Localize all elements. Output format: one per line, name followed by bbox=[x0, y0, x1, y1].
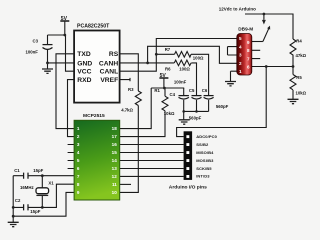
svg-text:8: 8 bbox=[247, 48, 250, 53]
svg-text:6: 6 bbox=[247, 64, 250, 69]
svg-text:Arduino I/O pins: Arduino I/O pins bbox=[169, 185, 207, 191]
svg-text:8: 8 bbox=[77, 182, 80, 187]
svg-text:1: 1 bbox=[77, 126, 80, 131]
svg-text:3: 3 bbox=[77, 142, 80, 147]
svg-text:15pF: 15pF bbox=[33, 168, 43, 173]
svg-text:VREF: VREF bbox=[100, 77, 118, 84]
svg-text:R1: R1 bbox=[154, 88, 160, 93]
svg-text:13: 13 bbox=[112, 166, 118, 171]
svg-text:VCC: VCC bbox=[77, 69, 91, 76]
svg-text:1: 1 bbox=[239, 69, 242, 74]
svg-text:4.7kΩ: 4.7kΩ bbox=[121, 107, 133, 112]
svg-text:16: 16 bbox=[112, 142, 118, 147]
svg-text:5: 5 bbox=[239, 36, 242, 41]
svg-text:4: 4 bbox=[77, 150, 80, 155]
svg-text:10: 10 bbox=[112, 190, 118, 195]
svg-text:PCA82C250T: PCA82C250T bbox=[77, 23, 110, 29]
svg-text:9: 9 bbox=[247, 40, 250, 45]
svg-text:RXD: RXD bbox=[77, 77, 91, 84]
svg-text:C3: C3 bbox=[33, 39, 39, 44]
svg-text:12: 12 bbox=[112, 174, 118, 179]
svg-text:5: 5 bbox=[77, 158, 80, 163]
svg-text:C2: C2 bbox=[15, 198, 21, 203]
svg-text:C5: C5 bbox=[189, 88, 195, 93]
svg-text:100nF: 100nF bbox=[174, 79, 187, 84]
svg-text:4: 4 bbox=[239, 44, 242, 49]
svg-text:R6: R6 bbox=[165, 67, 171, 72]
svg-text:C4: C4 bbox=[170, 92, 176, 97]
svg-text:R4: R4 bbox=[296, 39, 302, 44]
svg-text:RS: RS bbox=[109, 51, 119, 58]
svg-text:9: 9 bbox=[77, 190, 80, 195]
svg-text:2: 2 bbox=[239, 61, 242, 66]
svg-text:SCK/B5: SCK/B5 bbox=[196, 166, 212, 171]
svg-text:R7: R7 bbox=[165, 47, 171, 52]
svg-text:7: 7 bbox=[77, 174, 80, 179]
svg-text:100nF: 100nF bbox=[26, 49, 39, 54]
svg-text:CANL: CANL bbox=[100, 69, 119, 76]
svg-text:15pF: 15pF bbox=[30, 209, 40, 214]
svg-text:18: 18 bbox=[112, 126, 118, 131]
svg-text:6: 6 bbox=[77, 166, 80, 171]
svg-text:100Ω: 100Ω bbox=[193, 55, 204, 60]
svg-text:ADC0/PC0: ADC0/PC0 bbox=[196, 134, 217, 139]
svg-text:GND: GND bbox=[77, 60, 92, 67]
svg-text:560pF: 560pF bbox=[216, 104, 229, 109]
svg-text:3: 3 bbox=[239, 53, 242, 58]
svg-text:10kΩ: 10kΩ bbox=[296, 90, 307, 95]
svg-text:MOSI/B3: MOSI/B3 bbox=[196, 158, 214, 163]
svg-text:2: 2 bbox=[77, 134, 80, 139]
svg-text:C6: C6 bbox=[202, 88, 208, 93]
svg-text:10kΩ: 10kΩ bbox=[164, 111, 175, 116]
svg-text:SS/B2: SS/B2 bbox=[196, 142, 209, 147]
svg-text:MCP2515: MCP2515 bbox=[83, 113, 105, 119]
svg-text:R3: R3 bbox=[128, 87, 134, 92]
svg-text:100Ω: 100Ω bbox=[179, 67, 190, 72]
svg-text:CANH: CANH bbox=[99, 60, 118, 67]
svg-text:11: 11 bbox=[112, 182, 117, 187]
svg-text:C1: C1 bbox=[14, 168, 20, 173]
svg-text:INT/D3: INT/D3 bbox=[196, 174, 210, 179]
svg-text:DB9-M: DB9-M bbox=[238, 26, 253, 31]
svg-text:560pF: 560pF bbox=[189, 115, 202, 120]
svg-text:16MHz: 16MHz bbox=[20, 185, 34, 190]
svg-text:TXD: TXD bbox=[77, 51, 91, 58]
svg-text:X1: X1 bbox=[48, 180, 54, 185]
svg-text:14: 14 bbox=[112, 158, 118, 163]
svg-text:47kΩ: 47kΩ bbox=[296, 53, 307, 58]
svg-text:17: 17 bbox=[112, 134, 118, 139]
svg-text:5V: 5V bbox=[160, 73, 167, 79]
svg-text:R5: R5 bbox=[296, 75, 302, 80]
svg-text:MISO/B4: MISO/B4 bbox=[196, 150, 214, 155]
svg-text:15: 15 bbox=[112, 150, 118, 155]
svg-text:5V: 5V bbox=[61, 16, 68, 22]
svg-text:12Vdc to Arduino: 12Vdc to Arduino bbox=[219, 6, 256, 11]
svg-text:7: 7 bbox=[247, 56, 250, 61]
